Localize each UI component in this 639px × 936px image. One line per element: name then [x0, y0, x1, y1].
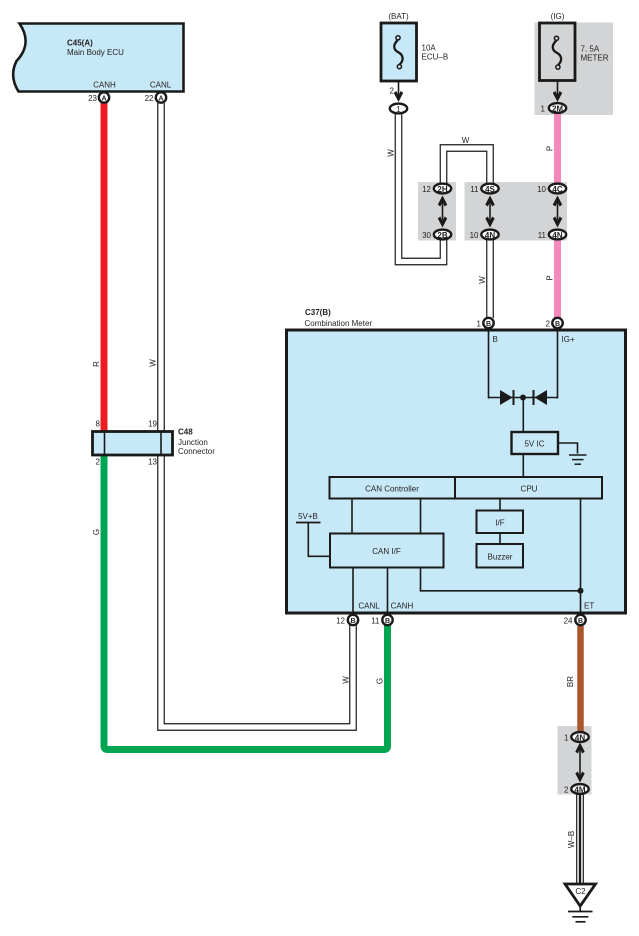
svg-text:G: G — [92, 529, 101, 535]
meter pin 11 (B) bottom — [371, 615, 393, 626]
svg-text:Combination Meter: Combination Meter — [305, 319, 373, 328]
svg-text:Main Body ECU: Main Body ECU — [67, 48, 124, 57]
svg-text:12: 12 — [422, 185, 431, 194]
svg-text:Connector: Connector — [178, 447, 215, 456]
svg-text:R: R — [92, 361, 101, 367]
svg-text:1: 1 — [477, 320, 482, 329]
svg-text:11: 11 — [538, 231, 547, 240]
wire from 5V IC bottom to CPU — [522, 454, 524, 477]
wire CAN I/F to CANH pin — [387, 568, 389, 614]
gray panel behind connectors 2H/2B — [418, 182, 456, 241]
5V IC block — [512, 432, 559, 454]
wire W bridge from 2H to 4S — [444, 148, 491, 184]
wire CPU to I/F — [499, 499, 501, 512]
connector C45(A) Main Body ECU — [13, 24, 183, 92]
svg-text:W: W — [462, 136, 470, 145]
wire from node down to 5V IC — [522, 398, 524, 433]
svg-text:5V IC: 5V IC — [524, 440, 544, 449]
svg-text:C45(A): C45(A) — [67, 39, 93, 48]
junction connector C48 — [93, 428, 216, 457]
svg-text:1: 1 — [396, 105, 401, 114]
svg-text:A: A — [101, 96, 106, 103]
meter pin 12 (B) bottom — [336, 615, 358, 626]
svg-text:4S: 4S — [485, 185, 495, 194]
svg-text:24: 24 — [564, 617, 573, 626]
diode D2 (right, pointing left) — [534, 390, 548, 405]
wire CPU down to ET pin — [580, 499, 582, 614]
wire from pin 1 down to diode row — [488, 332, 490, 399]
svg-text:C48: C48 — [178, 428, 193, 437]
svg-text:(IG): (IG) — [551, 12, 565, 21]
svg-text:CPU: CPU — [521, 485, 538, 494]
svg-text:12: 12 — [336, 617, 345, 626]
svg-text:B: B — [555, 321, 560, 328]
ground connector C2 — [565, 884, 596, 906]
connector oval 4C (pin 10) — [537, 184, 566, 194]
svg-text:ET: ET — [584, 602, 594, 611]
wire P from 4N to meter pin 2 — [554, 240, 561, 318]
svg-text:2: 2 — [96, 458, 101, 467]
lead and arrow from IG fuse to 2M — [553, 81, 562, 103]
svg-text:4C: 4C — [552, 185, 562, 194]
svg-text:4N: 4N — [485, 231, 495, 240]
CAN Controller block — [330, 477, 456, 499]
svg-text:ECU–B: ECU–B — [422, 53, 449, 62]
junction node dot — [520, 395, 526, 401]
svg-text:Buzzer: Buzzer — [488, 553, 513, 562]
connector oval 1 below BAT fuse — [390, 104, 407, 114]
ET node dot — [578, 588, 584, 594]
svg-text:B: B — [385, 618, 390, 625]
diode D1 (left, pointing right) — [500, 390, 514, 405]
svg-text:2B: 2B — [437, 231, 447, 240]
meter pin 24 (B) bottom — [564, 615, 586, 626]
svg-text:IG+: IG+ — [562, 335, 575, 344]
svg-text:P: P — [546, 275, 555, 280]
svg-text:2: 2 — [564, 786, 569, 795]
svg-text:B: B — [578, 618, 583, 625]
wire W from BAT fuse oval 1 down and around to 2B — [399, 113, 444, 262]
svg-text:B: B — [486, 321, 491, 328]
arrow link between 4S and 4N — [485, 196, 494, 228]
svg-text:B: B — [493, 335, 498, 344]
wire CAN I/F bottom to ET node — [421, 568, 581, 591]
connector oval 2B (pin 30) — [422, 230, 451, 240]
CPU block — [455, 477, 602, 499]
wire from pin 2 down to diode row — [557, 332, 559, 399]
svg-text:C2: C2 — [575, 887, 586, 896]
meter pin 1 (B) top — [477, 318, 494, 329]
svg-text:22: 22 — [145, 94, 154, 103]
connector oval 2H (pin 12) — [422, 184, 451, 194]
Buzzer block — [477, 544, 524, 568]
svg-text:W–B: W–B — [567, 831, 576, 848]
svg-text:CANL: CANL — [150, 81, 172, 90]
wires CAN Controller to CAN I/F — [351, 499, 353, 535]
gray panel behind connectors 4S/4N and 4C/4N — [465, 182, 568, 241]
svg-text:11: 11 — [371, 617, 380, 626]
combination meter C37(B) box — [287, 308, 626, 613]
connector oval 4N (pin 10) — [470, 230, 499, 240]
svg-text:W: W — [342, 676, 351, 684]
svg-text:1: 1 — [541, 105, 546, 114]
svg-text:2: 2 — [546, 320, 551, 329]
pin 2 lead and arrow from BAT fuse — [390, 81, 404, 102]
svg-text:10A: 10A — [422, 44, 437, 53]
svg-text:CANH: CANH — [93, 81, 116, 90]
svg-text:CAN Controller: CAN Controller — [365, 485, 419, 494]
svg-text:G: G — [376, 678, 385, 684]
svg-text:CANL: CANL — [358, 602, 380, 611]
pin 22 (A) of C45 — [145, 92, 167, 103]
svg-text:2: 2 — [390, 87, 395, 96]
connector oval 4N (pin 1) bottom — [564, 732, 589, 742]
pin 23 (A) of C45 — [88, 92, 109, 103]
svg-text:C37(B): C37(B) — [305, 308, 331, 317]
svg-text:CANH: CANH — [391, 602, 414, 611]
wire BR from meter pin 24 to connector 4N — [577, 626, 584, 733]
wire W-B from 4M to ground C2 — [576, 794, 584, 884]
wire G (CANH) from junction connector to meter pin 11 — [104, 454, 388, 750]
svg-text:13: 13 — [148, 458, 157, 467]
wire W from 4N down to meter pin 1 — [486, 240, 494, 318]
svg-text:(BAT): (BAT) — [388, 12, 409, 21]
meter pin 2 (B) top — [546, 318, 563, 329]
svg-text:2H: 2H — [437, 185, 447, 194]
diode row horizontal wire — [489, 397, 558, 399]
connector oval 4N right (pin 11) — [538, 230, 567, 240]
gray panel behind connectors 4N/4M bottom — [558, 726, 592, 795]
svg-text:I/F: I/F — [495, 519, 504, 528]
svg-text:BR: BR — [566, 676, 575, 687]
svg-text:10: 10 — [537, 185, 546, 194]
svg-text:W: W — [387, 149, 396, 157]
svg-text:19: 19 — [148, 420, 157, 429]
internal ground symbol — [569, 455, 587, 464]
svg-text:4N: 4N — [575, 734, 585, 743]
svg-text:W: W — [478, 276, 487, 284]
arrow link between 4C and 4N — [553, 196, 562, 228]
connector oval 4S (pin 11) — [470, 184, 499, 194]
svg-text:Junction: Junction — [178, 438, 208, 447]
power symbol 5V+B — [296, 512, 330, 556]
svg-text:7. 5A: 7. 5A — [581, 45, 600, 54]
fuse 7.5A METER (IG) — [540, 12, 609, 81]
ground symbol below C2 — [568, 906, 593, 922]
wire from 5V IC to internal ground — [558, 443, 578, 454]
arrow link between 4N and 4M — [575, 743, 584, 783]
svg-text:4M: 4M — [574, 786, 585, 795]
svg-text:CAN I/F: CAN I/F — [372, 547, 401, 556]
svg-text:30: 30 — [422, 231, 431, 240]
gray panel behind IG fuse — [535, 23, 614, 116]
svg-text:8: 8 — [96, 420, 101, 429]
fuse 10A ECU-B (BAT) — [381, 12, 448, 81]
svg-text:11: 11 — [470, 185, 479, 194]
svg-text:1: 1 — [564, 734, 569, 743]
svg-text:A: A — [158, 96, 163, 103]
arrow link between 2H and 2B — [438, 196, 447, 228]
svg-text:B: B — [350, 618, 355, 625]
svg-text:4N: 4N — [552, 231, 562, 240]
svg-text:2M: 2M — [552, 105, 563, 114]
wire R (CANH) from C45 pin 23 to junction connector — [101, 103, 108, 432]
svg-text:23: 23 — [88, 94, 97, 103]
CAN I/F block — [330, 534, 444, 568]
svg-text:METER: METER — [581, 54, 609, 63]
wire CAN I/F to CANL pin — [352, 568, 354, 614]
connector oval 2M (pin 1) — [541, 103, 567, 113]
svg-text:5V+B: 5V+B — [298, 512, 318, 521]
connector oval 4M (pin 2) bottom — [564, 784, 589, 794]
wire I/F to Buzzer — [499, 533, 501, 544]
svg-text:W: W — [149, 359, 158, 367]
wire P from 2M to 4C — [554, 113, 561, 184]
I/F block — [477, 511, 524, 534]
svg-text:10: 10 — [470, 231, 479, 240]
svg-text:P: P — [546, 146, 555, 151]
wire W (CANL) from C45 pin 22 to meter pin 12 — [161, 103, 353, 727]
